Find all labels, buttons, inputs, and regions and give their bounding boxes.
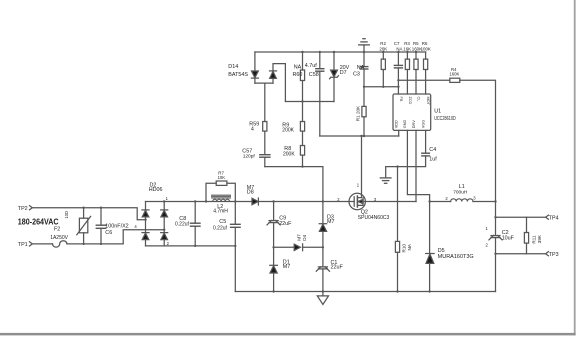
page border right [574, 0, 576, 335]
wire D1 to bottom rail [273, 273, 275, 292]
resistor R4 160K [450, 78, 460, 82]
svg-text:3: 3 [473, 196, 476, 201]
svg-text:200K: 200K [282, 127, 294, 133]
varistor RV (SMD) [77, 208, 91, 244]
wire TP1 to fuse [32, 243, 52, 245]
resistor R8 200K [300, 131, 304, 167]
svg-text:FB: FB [399, 97, 403, 102]
bridge diode lower-right [161, 233, 168, 240]
svg-text:R10: R10 [402, 244, 407, 253]
svg-text:100K: 100K [421, 46, 431, 51]
svg-text:200K: 200K [283, 151, 295, 157]
capacitor C2 10uF electrolytic [489, 235, 502, 291]
page border bottom [0, 333, 576, 336]
svg-text:1: 1 [166, 196, 169, 201]
diode D14 BAT54S right half [270, 64, 286, 102]
svg-text:1A250V: 1A250V [50, 235, 68, 241]
wire TP4 output line [496, 216, 546, 218]
wire U1 VDD stub to gate net [398, 130, 400, 136]
svg-text:4.7uf: 4.7uf [305, 63, 317, 69]
wire L1 to output node [473, 201, 496, 203]
svg-text:1: 1 [486, 226, 489, 231]
svg-text:U1: U1 [434, 108, 441, 114]
svg-text:D8: D8 [247, 189, 254, 195]
wire R4 to output sense vertical [460, 80, 496, 235]
wire Q2 source rail to DRV corner [365, 201, 416, 203]
diode D1 M7 [270, 265, 278, 273]
inductor L1 700uH [451, 199, 473, 202]
wire fuse to bridge lower jog [67, 230, 164, 244]
resistor R1 20K [362, 87, 366, 136]
svg-text:D14: D14 [228, 64, 238, 70]
svg-text:20K: 20K [379, 46, 387, 51]
svg-text:NA: NA [357, 65, 365, 71]
svg-text:2: 2 [486, 243, 489, 248]
bridge rectifier D2 right branch [163, 202, 165, 246]
resistor R10 NA [395, 167, 399, 292]
node TP1 (AC input test point) [30, 242, 33, 246]
svg-text:NA: NA [396, 46, 402, 51]
wire D3 branch from main rail [322, 202, 324, 224]
svg-text:L1: L1 [459, 184, 465, 190]
svg-text:BAT54S: BAT54S [228, 72, 248, 78]
ground power symbol (open triangle) [317, 292, 328, 305]
svg-text:C58: C58 [309, 72, 319, 78]
svg-text:0.22uf: 0.22uf [175, 221, 190, 227]
resistor R9 200K [300, 102, 304, 132]
svg-text:10uF: 10uF [502, 235, 515, 241]
svg-text:160K: 160K [449, 71, 459, 76]
svg-text:R60: R60 [293, 72, 303, 78]
svg-text:M7: M7 [327, 219, 335, 225]
transistor Q2 SPU04N60C3 [349, 193, 365, 209]
svg-text:ZCD: ZCD [408, 97, 412, 105]
diode D5 MURA160T3G [426, 254, 434, 292]
svg-text:22uF: 22uF [331, 264, 344, 270]
svg-text:D5: D5 [438, 248, 445, 254]
svg-text:HD06: HD06 [149, 187, 163, 193]
zener diode D7 20V [330, 52, 339, 102]
svg-text:D4: D4 [302, 234, 307, 240]
capacitor C57 120pf [260, 155, 270, 167]
bridge diode upper-right [161, 210, 168, 217]
wire U1 DRV stub to source rail [415, 130, 417, 201]
wire gate vertical to Q2 [361, 136, 363, 195]
svg-text:10K: 10K [218, 175, 226, 180]
svg-text:2: 2 [445, 196, 448, 201]
wire main rail D8 to Q2 [258, 201, 349, 203]
svg-text:10D: 10D [64, 211, 69, 219]
wire aux horizontal net [265, 167, 323, 202]
resistor R59 4 [263, 122, 267, 155]
wire R60/D14/D7 horizontal net [285, 101, 334, 103]
svg-text:C4: C4 [429, 147, 436, 153]
wire VGG/gate horizontal net [320, 135, 399, 137]
resistor R5 160K [414, 52, 418, 94]
wire C1 to bottom rail [322, 269, 324, 292]
wire C9/D1 branch [273, 202, 275, 220]
svg-text:700uH: 700uH [453, 190, 468, 196]
op-amp U1 UCC28610D (controller IC body) [393, 94, 431, 130]
resistor R3 16K [405, 52, 409, 94]
resistor R60 NA [300, 52, 304, 102]
wire net-A horizontal (FB divider) [364, 86, 398, 88]
capacitor C3 NA [360, 52, 368, 87]
wire D14 common junction [255, 83, 273, 121]
svg-text:C6: C6 [105, 230, 112, 236]
svg-text:180-264VAC: 180-264VAC [18, 218, 59, 227]
svg-text:C5: C5 [219, 219, 226, 225]
svg-text:100nF/X2: 100nF/X2 [105, 223, 128, 229]
svg-text:DRV: DRV [412, 120, 416, 128]
diode D4 M7 [294, 244, 302, 251]
svg-text:CL: CL [417, 97, 421, 102]
svg-text:SPU04N60C3: SPU04N60C3 [358, 215, 390, 221]
svg-text:1uf: 1uf [429, 156, 437, 162]
svg-text:M7: M7 [283, 264, 291, 270]
diode D8 M7 [252, 198, 258, 205]
capacitor C4 1uf on VGG stub [386, 130, 430, 177]
ground earth symbol mid (below C4 net) [380, 178, 391, 183]
capacitor C5 0.22uf [231, 202, 241, 292]
svg-text:120pf: 120pf [243, 154, 256, 160]
inductor L2 4.7mH [212, 195, 231, 201]
wire bridge bottom rail [146, 245, 236, 247]
capacitor C7 NA [394, 52, 402, 94]
svg-text:2: 2 [167, 241, 170, 246]
svg-text:1: 1 [357, 182, 360, 187]
svg-text:D7: D7 [340, 70, 347, 76]
svg-text:M7: M7 [297, 234, 302, 241]
wire bottom rail [235, 291, 495, 293]
fuse F2 1A250V [53, 241, 67, 247]
svg-text:VDD: VDD [395, 120, 399, 128]
wire C9 to D1 [273, 223, 275, 266]
svg-text:GND: GND [403, 120, 407, 129]
node TP3 [546, 252, 549, 256]
wire TP3 return line [496, 253, 546, 255]
wire main DC rail from bridge to D8 [146, 201, 253, 203]
svg-text:F2: F2 [54, 226, 60, 232]
wire net-B feedback to R4 [398, 79, 449, 81]
svg-text:VGG: VGG [421, 120, 425, 128]
wire D4 to D3 branch [303, 246, 323, 248]
capacitor C8 0.22uf [191, 202, 201, 246]
svg-text:39K: 39K [537, 234, 542, 243]
capacitor C58 4.7uf [316, 52, 324, 136]
wire switch-node rail to L1 [430, 201, 451, 203]
wire mid branch C9-node to D4 [274, 246, 295, 248]
top bus wire [255, 51, 426, 53]
svg-text:16K: 16K [403, 46, 411, 51]
bridge diode upper-left [142, 210, 149, 217]
diode D14 BAT54S left half [251, 52, 258, 83]
svg-text:TP2: TP2 [18, 206, 28, 212]
svg-text:4.7mH: 4.7mH [213, 208, 228, 214]
svg-text:TP1: TP1 [18, 242, 28, 248]
bridge diode lower-left [142, 233, 149, 240]
capacitor C6 100nF/X2 [96, 208, 106, 244]
capacitor C1 22uF electrolytic [316, 267, 329, 272]
capacitor C9 22uF electrolytic [267, 220, 280, 225]
svg-text:0.22uf: 0.22uf [213, 226, 228, 232]
resistor R7 10K bypass loop over L2 [206, 181, 235, 202]
svg-text:UCC28610D: UCC28610D [434, 116, 456, 122]
svg-text:MOT: MOT [426, 97, 430, 106]
ground earth symbol top (above bus) [359, 39, 370, 52]
diode D3 M7 [319, 224, 326, 232]
svg-text:NA: NA [294, 64, 302, 70]
svg-text:C3: C3 [353, 71, 360, 77]
svg-text:TP4: TP4 [549, 215, 559, 221]
svg-text:R11: R11 [531, 235, 536, 244]
svg-text:NA: NA [407, 243, 412, 250]
resistor R2 20K [381, 52, 385, 87]
resistor R6 100K [424, 52, 428, 94]
wire U1 GND stub jog to D5 node [407, 130, 429, 253]
svg-text:TP3: TP3 [549, 252, 559, 258]
svg-text:MURA160T3G: MURA160T3G [438, 254, 474, 260]
node TP2 (AC input test point) [30, 206, 33, 210]
wire TP2 to bridge jog [32, 208, 145, 220]
svg-text:R1 20K: R1 20K [355, 105, 360, 121]
svg-text:22uF: 22uF [279, 221, 292, 227]
svg-text:4: 4 [251, 127, 254, 133]
svg-text:4: 4 [134, 224, 137, 229]
bridge rectifier D2 HD06 left branch [145, 202, 147, 246]
wire D3 to C1 [322, 231, 324, 266]
node TP4 [546, 215, 549, 219]
resistor R11 39K [524, 217, 528, 254]
